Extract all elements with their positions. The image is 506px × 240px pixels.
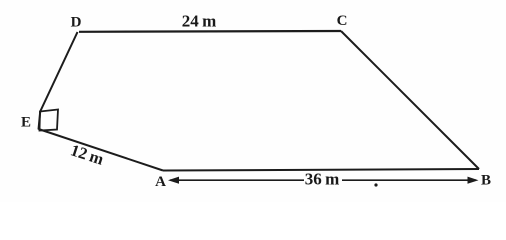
svg-text:A: A [155,174,166,190]
svg-text:12 m: 12 m [68,140,106,169]
dimension arrowhead at A [168,177,179,184]
wire side CB [341,31,479,169]
dimension arrow AB right part [342,179,476,181]
wire side BA [163,169,479,171]
svg-text:C: C [337,13,348,29]
svg-text:24 m: 24 m [182,12,217,31]
svg-text:36 m: 36 m [305,170,340,189]
svg-text:D: D [71,15,82,31]
svg-text:E: E [21,115,31,131]
stray dot [374,183,377,186]
dimension arrowhead at B [468,177,479,184]
dimension arrow AB left part [170,179,304,181]
wire side DC [79,30,341,33]
right-angle marker at E [40,110,59,131]
wire side AE [39,129,164,171]
wire side ED [39,32,78,130]
svg-text:B: B [481,173,491,189]
